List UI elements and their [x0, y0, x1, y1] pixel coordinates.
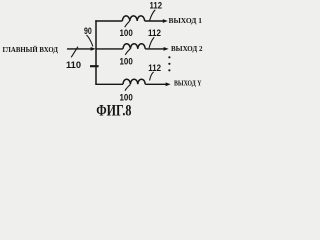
- leader from label 110 to main input line: [71, 47, 78, 58]
- wire: branch 2 left segment: [96, 48, 123, 50]
- svg-text:112: 112: [148, 27, 161, 38]
- leader from label 112 to wire (branch 2): [149, 37, 154, 48]
- leader from label 112 to wire (branch 1): [150, 10, 156, 21]
- inductor 100 (branch Y): [123, 79, 145, 84]
- leader from label 90 to junction: [87, 35, 93, 46]
- svg-text:112: 112: [148, 62, 161, 73]
- arrowhead output Y: [166, 82, 171, 86]
- wire: vertical bus (node 110): [95, 20, 97, 84]
- inductor 100 (branch 2): [123, 44, 145, 49]
- leader from label 100 to inductor (branch 1): [125, 21, 130, 27]
- tick mark on bus: [90, 65, 99, 67]
- wire: main input line: [67, 48, 92, 50]
- svg-text:100: 100: [120, 27, 133, 38]
- svg-text:ГЛАВНЫЙ ВХОД: ГЛАВНЫЙ ВХОД: [3, 45, 59, 54]
- svg-text:ВЫХОД Y: ВЫХОД Y: [174, 81, 202, 88]
- svg-text:100: 100: [120, 91, 133, 102]
- wire: branch Y left segment: [95, 83, 123, 85]
- svg-text:ВЫХОД 1: ВЫХОД 1: [169, 17, 203, 25]
- leader from label 100 to inductor (branch 2): [125, 49, 130, 55]
- ellipsis dots: [168, 56, 170, 58]
- arrowhead at node 90 junction: [91, 47, 96, 51]
- svg-text:110: 110: [66, 59, 81, 70]
- leader from label 100 to inductor (branch Y): [125, 85, 130, 91]
- arrowhead output 2: [164, 47, 169, 51]
- svg-text:ФИГ.8: ФИГ.8: [96, 103, 131, 120]
- svg-text:ВЫХОД 2: ВЫХОД 2: [171, 45, 203, 53]
- svg-text:90: 90: [84, 25, 92, 36]
- wire: branch 2 right segment: [145, 48, 164, 50]
- wire: branch 1 left segment: [95, 20, 122, 22]
- svg-text:112: 112: [150, 0, 163, 10]
- svg-text:100: 100: [120, 55, 133, 66]
- leader from label 112 to wire (branch Y): [150, 72, 154, 81]
- wire: branch Y right segment: [145, 83, 166, 85]
- inductor 100 (branch 1): [122, 16, 144, 21]
- wire: branch 1 right segment: [145, 20, 164, 22]
- arrowhead output 1: [163, 19, 168, 23]
